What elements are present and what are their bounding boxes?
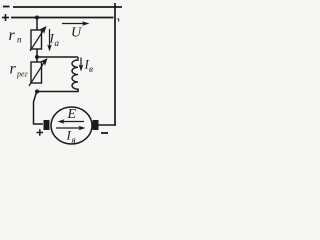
- current arrow Iа: [47, 29, 52, 52]
- armature current arrow: [56, 126, 86, 131]
- plus sign of supply: [2, 14, 9, 21]
- label Iа: [49, 31, 60, 48]
- current arrow Iв: [79, 58, 84, 72]
- wire right vertical from negative bus to armature: [114, 3, 116, 126]
- node junction on positive bus: [35, 16, 39, 20]
- svg-text:а: а: [55, 38, 60, 48]
- label Iя: [66, 128, 76, 146]
- plus sign at armature: [37, 129, 44, 135]
- svg-text:я: я: [71, 135, 76, 145]
- emf arrow inside armature: [58, 119, 85, 124]
- wire to field branch: [37, 56, 78, 58]
- motor armature circle: [51, 107, 92, 144]
- svg-text:r: r: [9, 27, 16, 44]
- svg-text:U: U: [71, 26, 82, 41]
- wire from junction down to armature plus brush: [34, 92, 44, 125]
- wire negative bus: [13, 6, 122, 8]
- node junction below rп: [35, 55, 39, 59]
- label E: [67, 107, 77, 122]
- wire from rп to rрег: [36, 49, 38, 62]
- node junction below rрег: [35, 90, 39, 94]
- wire from positive bus down to rheostat rп: [36, 18, 38, 31]
- inductor field winding: [72, 57, 78, 92]
- right brush: [93, 120, 99, 130]
- minus sign at armature: [101, 132, 108, 134]
- resistor rп (starting rheostat, adjustable): [30, 26, 47, 51]
- svg-text:п: п: [17, 35, 22, 45]
- hook artifact right of positive bus end: [118, 19, 119, 22]
- wire from right brush to right vertical: [99, 124, 117, 126]
- label rрег: [10, 61, 28, 79]
- left brush: [44, 120, 50, 130]
- voltage arrow U: [62, 21, 90, 40]
- label Iв: [84, 57, 94, 75]
- wire positive bus: [11, 17, 114, 19]
- svg-text:E: E: [67, 107, 77, 122]
- svg-text:рег: рег: [16, 70, 28, 79]
- svg-text:r: r: [10, 61, 17, 78]
- svg-text:в: в: [89, 64, 93, 74]
- minus sign of supply: [3, 6, 10, 8]
- label rп: [9, 27, 23, 45]
- wire from field winding to junction: [37, 89, 78, 92]
- resistor rрег (field rheostat, adjustable): [29, 58, 48, 86]
